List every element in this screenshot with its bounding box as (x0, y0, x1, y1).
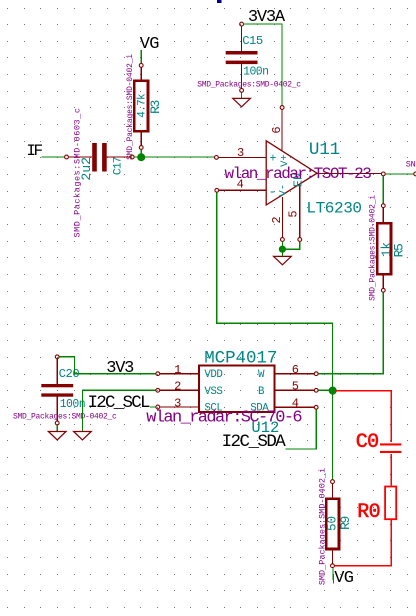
U12 pin 2 VSS (156, 380, 222, 398)
resistor R3 (134, 64, 148, 150)
svg-text:R5: R5 (391, 244, 406, 257)
ground below C15 (233, 93, 251, 107)
capacitor C15 (226, 26, 258, 92)
wire U11 pin 4 feedback to junction (217, 192, 333, 388)
U11 pin 2 V- (270, 184, 290, 241)
svg-text:3: 3 (237, 146, 244, 160)
wire U12 pin 4 to I2C_SDA label (286, 410, 317, 449)
svg-text:R9: R9 (338, 517, 353, 530)
ground below VSS wire (74, 432, 92, 440)
U12 pin 1 VDD (156, 363, 222, 381)
svg-text:I2C_SCL: I2C_SCL (88, 393, 151, 413)
svg-text:3V3: 3V3 (106, 359, 134, 378)
svg-text:wlan_radar:TSOT-23: wlan_radar:TSOT-23 (225, 165, 372, 183)
ground below U11 (274, 249, 292, 265)
wire R5 to U12 pin W (318, 292, 383, 373)
svg-text:5: 5 (287, 210, 301, 217)
junction at U11 ground (279, 246, 286, 253)
U12 pin 6 W (258, 363, 318, 381)
svg-text:SMD_Packages:SMD-0402_i: SMD_Packages:SMD-0402_i (369, 195, 378, 301)
svg-text:SMD_Packages:SMD-0603_c: SMD_Packages:SMD-0603_c (72, 108, 82, 238)
svg-text:R3: R3 (148, 101, 163, 114)
svg-text:5: 5 (292, 380, 299, 394)
cropped blue glyph at top edge (217, 0, 222, 3)
svg-text:VG: VG (334, 569, 354, 588)
wire U12 pin 2 VSS to ground (82, 390, 155, 431)
U11 pin 5 EN (287, 173, 306, 242)
junction IF node (137, 153, 145, 161)
svg-text:6: 6 (270, 126, 284, 133)
U12 pin 5 B (258, 380, 318, 398)
svg-text:C0: C0 (356, 431, 379, 454)
U12 pin 4 SDA (250, 396, 318, 414)
capacitor C17 (65, 143, 135, 172)
svg-text:LT6230: LT6230 (306, 200, 361, 218)
svg-text:I2C_SDA: I2C_SDA (222, 432, 287, 452)
svg-text:MCP4017: MCP4017 (204, 349, 277, 369)
wire IF to C17 (42, 156, 65, 158)
svg-text:100n: 100n (60, 398, 85, 411)
svg-text:6: 6 (292, 363, 299, 377)
wire U12 pin 5 to junction (318, 389, 329, 391)
svg-text:VDD: VDD (204, 369, 222, 381)
red wire junction to C0 (335, 391, 392, 442)
svg-text:SMD_Packages:SMD-0402_c: SMD_Packages:SMD-0402_c (13, 412, 117, 421)
svg-text:100n: 100n (243, 66, 268, 79)
svg-text:C17: C17 (113, 157, 125, 175)
integrated circuit U12 box (199, 366, 275, 413)
svg-text:B: B (258, 386, 265, 398)
junction wiper node (329, 387, 337, 395)
svg-text:2: 2 (270, 216, 284, 223)
svg-text:VSS: VSS (204, 386, 222, 398)
capacitor C0 highlighted (380, 443, 401, 453)
resistor R9 (326, 480, 339, 568)
resistor R0 highlighted (385, 487, 396, 520)
pin of off-sheet component at right edge (414, 172, 416, 176)
wire U11 output to R5 (382, 176, 384, 204)
svg-text:SN: SN (406, 159, 416, 169)
svg-text:W: W (258, 369, 265, 381)
U11 pin 4 (215, 178, 276, 200)
svg-text:U11: U11 (309, 140, 340, 160)
U11 output pin (317, 172, 385, 176)
svg-text:R0: R0 (357, 501, 380, 524)
capacitor C20 (41, 355, 73, 425)
wire R3 to junction (140, 150, 142, 157)
wire C17 to junction (134, 156, 141, 158)
wire C20 to U12 pin 1 (59, 357, 155, 374)
wire R9 to VG label (332, 568, 335, 584)
svg-text:1: 1 (174, 363, 181, 377)
op-amp U11 body (266, 141, 317, 205)
wire junction to U11 pin 3 (145, 156, 214, 158)
svg-text:SMD_Packages:SMD-0402_c: SMD_Packages:SMD-0402_c (197, 81, 301, 90)
svg-text:VG: VG (140, 35, 160, 54)
wire I2C_SCL to U12 pin 3 (150, 406, 156, 408)
svg-text:+: + (269, 153, 276, 166)
ground below C20 (48, 425, 66, 440)
wire 3V3A to U11 pin 6 (244, 24, 283, 105)
svg-text:SMD_Packages:SMD-0402_i: SMD_Packages:SMD-0402_i (126, 54, 135, 160)
wire VG to R3 (140, 50, 142, 63)
svg-text:IF: IF (26, 142, 42, 160)
svg-text:V-: V- (278, 184, 290, 197)
red wire C0 to R0 (390, 454, 392, 486)
U12 pin 3 SCL (156, 396, 222, 414)
wire junction to R9 (332, 394, 334, 480)
U11 pin 6 V+ (270, 106, 291, 167)
power symbol 3V3A (240, 8, 286, 27)
svg-text:4.7k: 4.7k (137, 93, 149, 118)
wire U11 output right to sheet edge (385, 173, 413, 175)
svg-text:SMD_Packages:SMD-0402_i: SMD_Packages:SMD-0402_i (317, 468, 327, 585)
wire U11 pins 2,5 to ground (282, 242, 299, 250)
resistor R5 (377, 204, 391, 292)
red wire R0 to VG node (335, 520, 392, 566)
svg-text:-: - (268, 184, 276, 199)
svg-text:C15: C15 (242, 34, 263, 48)
U11 pin 3 (215, 146, 277, 166)
svg-text:2: 2 (174, 380, 181, 394)
